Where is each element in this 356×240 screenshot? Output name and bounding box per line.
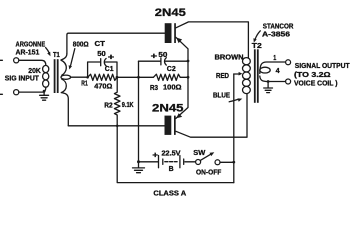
svg-text:R1: R1	[81, 80, 88, 87]
wire primary bottom lead	[44, 87, 46, 95]
capacitor C2 right wire	[165, 60, 188, 62]
transformer T2 secondary bottom lead	[260, 76, 286, 82]
node R1/R2 junction	[116, 76, 119, 79]
switch SW	[196, 152, 234, 165]
svg-text:1: 1	[273, 53, 276, 62]
transformer T2 secondary loop	[260, 67, 270, 73]
wire Q2 collector to T2 bottom	[176, 94, 247, 138]
wire bottom-left vertical and bottom line	[117, 126, 234, 183]
node R2 bottom junction	[116, 125, 119, 128]
wire center tap to R1	[71, 76, 88, 78]
capacitor C1 plates	[100, 59, 102, 66]
node bus/C2 junction	[187, 60, 190, 63]
node input ground junction	[43, 90, 46, 93]
input terminal top	[14, 58, 19, 63]
transistor Q2 2N45	[165, 116, 176, 135]
transformer T1 core	[55, 59, 58, 93]
output terminal 4	[286, 79, 291, 84]
node battery/switch right junction	[232, 161, 235, 164]
svg-text:800Ω: 800Ω	[73, 41, 89, 48]
svg-text:+: +	[151, 51, 158, 61]
svg-text:4: 4	[276, 66, 280, 75]
svg-text:SIG INPUT: SIG INPUT	[5, 74, 40, 83]
svg-text:RED: RED	[216, 73, 229, 80]
node T2 secondary ground junction	[267, 80, 270, 83]
svg-text:50: 50	[97, 49, 106, 58]
label STANCOR A-3856 with arrow	[253, 22, 294, 43]
transformer T1 secondary top bump	[61, 54, 67, 76]
ground G1	[40, 95, 49, 100]
label 800 ohm CT with arrow	[69, 41, 106, 70]
svg-text:T2: T2	[252, 41, 262, 50]
transformer T2 primary winding	[243, 58, 251, 94]
resistor R2	[114, 77, 120, 126]
transformer T1 secondary center-tap loop	[61, 75, 71, 79]
wire Q1 base from T1 secondary top	[67, 33, 165, 53]
svg-text:SIGNAL OUTPUT: SIGNAL OUTPUT	[295, 61, 350, 70]
svg-text:2N45: 2N45	[155, 7, 186, 19]
wire vertical C2-left to ground	[138, 61, 140, 162]
transformer T1 primary winding	[43, 65, 49, 87]
transistor Q1 2N45	[165, 23, 176, 43]
input terminal bottom	[14, 90, 19, 95]
wire bias line middle	[117, 76, 153, 78]
capacitor C1 stub left	[88, 62, 101, 77]
svg-text:+: +	[108, 52, 115, 62]
wire Q1 emitter / bus / Q2 emitter	[176, 37, 188, 118]
arrowhead Q1 emitter	[176, 38, 182, 44]
ground G3	[264, 82, 273, 93]
node bus/bias junction	[187, 76, 190, 79]
wire stub left edge top	[0, 59, 2, 61]
svg-text:A-3856: A-3856	[262, 30, 290, 39]
node bias line left junction	[86, 76, 89, 79]
svg-text:T1: T1	[53, 50, 60, 59]
svg-text:B: B	[169, 164, 174, 173]
capacitor C2 left wire	[139, 60, 161, 62]
capacitor C1 stub right	[105, 62, 117, 77]
wire stub left edge bottom	[0, 93, 2, 95]
transformer T1 secondary bottom bump and lead	[61, 79, 68, 126]
wire bias line right	[180, 76, 188, 78]
wire RED vertical to bottom	[233, 74, 235, 183]
ground G2	[133, 162, 145, 173]
svg-text:9.1K: 9.1K	[122, 102, 134, 109]
svg-text:100Ω: 100Ω	[163, 85, 182, 92]
svg-text:ON-OFF: ON-OFF	[196, 170, 222, 177]
svg-text:CT: CT	[95, 41, 106, 48]
svg-text:22.5V: 22.5V	[162, 150, 181, 157]
svg-text:+: +	[152, 150, 158, 159]
transformer T2 core	[255, 49, 258, 103]
svg-text:R3: R3	[150, 85, 158, 92]
wire Q1 collector to T2	[176, 22, 249, 58]
wire Q2 base line	[68, 125, 164, 127]
svg-text:2N45: 2N45	[152, 102, 184, 114]
node ground G2 junction	[137, 160, 140, 163]
svg-text:(TO 3.2Ω: (TO 3.2Ω	[294, 70, 331, 79]
wire RED center tap with arrowhead	[234, 73, 239, 75]
svg-text:50: 50	[158, 50, 167, 59]
battery B	[139, 156, 196, 168]
wire input bottom	[19, 91, 44, 93]
arrowhead Q2 emitter	[176, 113, 182, 118]
svg-text:C2: C2	[167, 64, 176, 73]
node C2/vertical junction	[137, 76, 140, 79]
capacitor C2 plates	[160, 58, 162, 65]
svg-text:VOICE COIL ): VOICE COIL )	[294, 79, 338, 88]
label SIGNAL OUTPUT (TO 3.2 ohm VOICE COIL)	[294, 61, 350, 88]
label BLUE with arrow	[213, 93, 242, 102]
svg-text:R2: R2	[104, 102, 112, 109]
svg-text:CLASS A: CLASS A	[153, 189, 186, 198]
svg-text:C1: C1	[105, 64, 114, 73]
svg-text:SW: SW	[193, 150, 205, 157]
wire input top	[19, 60, 46, 65]
resistor R3	[153, 74, 180, 80]
svg-text:BLUE: BLUE	[213, 93, 230, 100]
svg-text:AR-151: AR-151	[16, 47, 40, 56]
svg-text:470Ω: 470Ω	[94, 83, 112, 90]
svg-text:BROWN: BROWN	[215, 54, 244, 61]
transformer T2 secondary top lead	[260, 62, 286, 74]
output terminal 1	[286, 60, 291, 65]
label ARGONNE AR-151	[16, 40, 51, 57]
resistor R1	[88, 74, 117, 80]
